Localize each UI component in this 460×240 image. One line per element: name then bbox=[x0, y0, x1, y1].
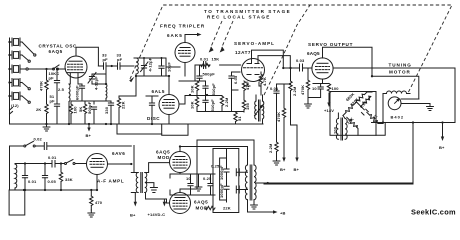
svg-text:6AQ5: 6AQ5 bbox=[194, 200, 208, 205]
svg-text:MOD: MOD bbox=[158, 155, 170, 160]
svg-text:4.7K: 4.7K bbox=[262, 77, 267, 86]
svg-text:0.05: 0.05 bbox=[48, 179, 57, 184]
svg-text:(12): (12) bbox=[11, 103, 19, 108]
svg-text:150: 150 bbox=[245, 102, 250, 110]
svg-text:330: 330 bbox=[104, 106, 109, 114]
svg-text:0.01: 0.01 bbox=[270, 86, 279, 91]
svg-text:SERVO-AMPL: SERVO-AMPL bbox=[234, 41, 275, 46]
svg-text:1000pF: 1000pF bbox=[219, 183, 224, 198]
svg-text:6AQ5: 6AQ5 bbox=[307, 51, 320, 56]
svg-text:6AV6: 6AV6 bbox=[112, 151, 125, 156]
svg-text:pF: pF bbox=[49, 75, 55, 80]
svg-text:2.5: 2.5 bbox=[58, 87, 65, 92]
svg-text:SERVO OUTPUT: SERVO OUTPUT bbox=[308, 42, 353, 47]
svg-text:0.01: 0.01 bbox=[48, 155, 57, 160]
svg-text:pF: pF bbox=[103, 57, 109, 62]
svg-text:2.2M: 2.2M bbox=[268, 143, 273, 153]
svg-text:6AQ5: 6AQ5 bbox=[49, 49, 63, 54]
svg-text:B402: B402 bbox=[391, 115, 405, 120]
svg-text:B+: B+ bbox=[294, 167, 300, 172]
svg-text:TO TRANSMITTER STAGE: TO TRANSMITTER STAGE bbox=[204, 9, 291, 14]
svg-text:2.2M: 2.2M bbox=[224, 97, 229, 107]
svg-text:DISC: DISC bbox=[147, 116, 160, 121]
svg-text:100: 100 bbox=[333, 126, 338, 134]
svg-text:+14VD-C: +14VD-C bbox=[148, 212, 166, 217]
svg-text:470: 470 bbox=[95, 200, 103, 205]
svg-text:REC LOCAL STAGE: REC LOCAL STAGE bbox=[207, 14, 271, 19]
svg-text:1000pF: 1000pF bbox=[219, 165, 224, 180]
svg-text:100: 100 bbox=[332, 86, 340, 91]
svg-text:510pF: 510pF bbox=[210, 99, 215, 112]
svg-text:12AT7: 12AT7 bbox=[235, 50, 251, 55]
svg-text:2.2M: 2.2M bbox=[292, 86, 297, 96]
svg-text:15K: 15K bbox=[212, 57, 220, 62]
svg-text:470K: 470K bbox=[300, 85, 305, 95]
svg-text:6000pF: 6000pF bbox=[75, 85, 80, 100]
svg-text:FREQ TRIPLER: FREQ TRIPLER bbox=[160, 24, 205, 29]
svg-text:A-F AMPL: A-F AMPL bbox=[97, 179, 124, 184]
svg-text:470K: 470K bbox=[39, 81, 44, 91]
svg-text:0.05: 0.05 bbox=[233, 75, 238, 84]
svg-text:10: 10 bbox=[312, 86, 317, 91]
svg-text:0.01: 0.01 bbox=[200, 57, 209, 62]
svg-text:pF: pF bbox=[50, 99, 56, 104]
svg-text:33K: 33K bbox=[65, 177, 73, 182]
svg-text:B+: B+ bbox=[130, 213, 136, 218]
svg-text:22K: 22K bbox=[121, 101, 126, 109]
svg-text:47K: 47K bbox=[245, 82, 250, 90]
svg-text:+14V: +14V bbox=[324, 108, 334, 113]
svg-text:+B: +B bbox=[280, 211, 286, 216]
svg-text:B+: B+ bbox=[86, 133, 92, 138]
svg-text:pF: pF bbox=[117, 57, 123, 62]
svg-text:6AL5: 6AL5 bbox=[152, 89, 165, 94]
svg-text:TUNING: TUNING bbox=[389, 63, 412, 68]
svg-text:0.25: 0.25 bbox=[203, 176, 212, 181]
svg-text:2K: 2K bbox=[36, 107, 41, 112]
svg-text:500pF: 500pF bbox=[87, 101, 92, 114]
svg-text:500pF: 500pF bbox=[203, 72, 216, 77]
svg-text:0.03: 0.03 bbox=[296, 58, 305, 63]
svg-text:470K: 470K bbox=[276, 112, 281, 122]
svg-text:22K: 22K bbox=[223, 206, 231, 211]
svg-text:5K: 5K bbox=[78, 107, 83, 112]
svg-text:10: 10 bbox=[186, 176, 191, 181]
svg-text:0.01: 0.01 bbox=[28, 179, 37, 184]
svg-text:SeekIC.com: SeekIC.com bbox=[411, 208, 456, 217]
svg-text:B+: B+ bbox=[280, 167, 286, 172]
svg-text:6AK5: 6AK5 bbox=[167, 33, 183, 38]
svg-text:6AQ5: 6AQ5 bbox=[156, 150, 170, 155]
svg-text:0.02: 0.02 bbox=[34, 137, 43, 142]
svg-text:MOTOR: MOTOR bbox=[389, 70, 411, 75]
svg-text:510pF: 510pF bbox=[211, 83, 216, 96]
svg-text:CRYSTAL OSC: CRYSTAL OSC bbox=[39, 44, 78, 49]
svg-text:51: 51 bbox=[237, 116, 242, 121]
svg-text:4-12pF: 4-12pF bbox=[148, 57, 153, 71]
svg-text:4-12pF: 4-12pF bbox=[94, 76, 99, 90]
svg-text:B+: B+ bbox=[439, 145, 445, 150]
svg-text:10K: 10K bbox=[190, 85, 195, 93]
svg-text:10K: 10K bbox=[190, 101, 195, 109]
svg-text:100: 100 bbox=[73, 106, 78, 114]
